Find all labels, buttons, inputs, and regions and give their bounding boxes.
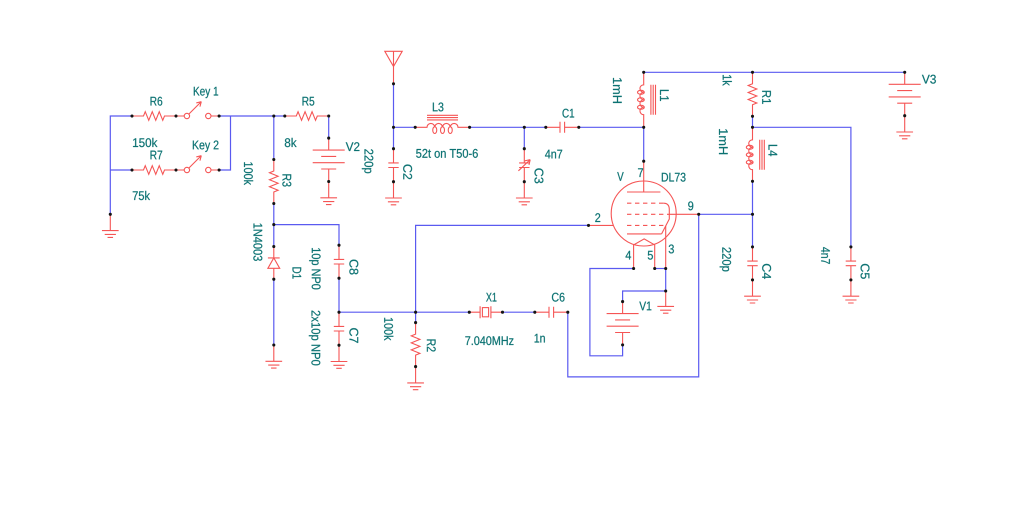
wire xyxy=(643,127,645,161)
junction xyxy=(697,213,700,216)
label V2 xyxy=(346,142,360,151)
junction xyxy=(272,278,275,281)
junction xyxy=(849,278,852,281)
junction xyxy=(664,267,667,270)
inductor L1 xyxy=(638,72,656,127)
capacitor C1 xyxy=(546,122,579,133)
junction xyxy=(337,311,340,314)
wire xyxy=(328,116,330,138)
junction xyxy=(642,160,645,163)
junction xyxy=(533,311,536,314)
junction xyxy=(468,126,471,129)
crystal X1 xyxy=(469,306,502,318)
label C8 xyxy=(349,260,358,275)
junction xyxy=(272,343,275,346)
value 1n xyxy=(535,334,545,343)
junction xyxy=(566,311,569,314)
capacitor C6 xyxy=(535,307,568,318)
junction xyxy=(414,321,417,324)
wire xyxy=(752,116,754,127)
value 8k xyxy=(285,138,297,147)
junction xyxy=(414,311,417,314)
wire xyxy=(523,127,525,148)
junction xyxy=(109,213,112,216)
junction xyxy=(283,114,286,117)
junction xyxy=(218,114,221,117)
junction xyxy=(327,180,330,183)
wire xyxy=(753,127,851,247)
junction xyxy=(751,126,754,129)
junction xyxy=(642,71,645,74)
wire xyxy=(644,71,905,73)
wire xyxy=(752,214,754,247)
value 4n7 xyxy=(821,247,830,264)
switch Key 2 xyxy=(176,156,219,173)
wire xyxy=(110,116,132,214)
wire xyxy=(273,279,275,345)
wire xyxy=(415,312,417,322)
junction xyxy=(337,344,340,347)
switch Key 1 xyxy=(176,102,219,119)
ground xyxy=(896,116,913,139)
junction xyxy=(544,126,547,129)
label R7 xyxy=(151,151,163,160)
junction xyxy=(337,277,340,280)
junction xyxy=(392,82,395,85)
label Key 2 xyxy=(193,141,219,152)
junction xyxy=(130,114,133,117)
junction xyxy=(587,224,590,227)
junction xyxy=(392,147,395,150)
junction xyxy=(642,126,645,129)
wire xyxy=(752,181,754,214)
junction xyxy=(849,245,852,248)
value 1mH xyxy=(613,78,622,103)
label L4 xyxy=(769,145,778,156)
label C2 xyxy=(403,165,412,180)
ground xyxy=(331,345,348,368)
battery V1 xyxy=(607,302,639,345)
label R5 xyxy=(303,97,315,106)
junction xyxy=(523,180,526,183)
junction xyxy=(751,213,754,216)
junction xyxy=(621,300,624,303)
junction xyxy=(392,126,395,129)
label Key 1 xyxy=(194,87,218,98)
wire xyxy=(665,269,667,292)
label D1 xyxy=(293,267,302,278)
wire xyxy=(219,116,230,170)
capacitor C2 xyxy=(388,149,398,182)
resistor R5 xyxy=(285,112,329,121)
battery V2 xyxy=(313,138,345,181)
label C5 xyxy=(861,264,870,279)
junction xyxy=(174,114,177,117)
value 100k xyxy=(384,318,393,341)
value 2x10p NP0 xyxy=(309,311,320,366)
junction xyxy=(751,245,754,248)
wire xyxy=(590,269,634,356)
value 220p xyxy=(720,247,731,271)
wire xyxy=(416,225,589,312)
tube V DL73 xyxy=(589,161,699,268)
wire xyxy=(568,214,699,377)
wire xyxy=(655,268,666,270)
capacitor C8 xyxy=(334,245,344,278)
junction xyxy=(218,168,221,171)
wire xyxy=(273,204,275,225)
junction xyxy=(174,168,177,171)
wire xyxy=(338,278,340,312)
wire xyxy=(470,126,546,128)
wire xyxy=(394,126,416,128)
ground xyxy=(102,214,119,237)
junction xyxy=(468,311,471,314)
wire xyxy=(219,115,285,117)
label C3 xyxy=(534,168,543,183)
diode D1 xyxy=(268,247,280,280)
junction xyxy=(523,126,526,129)
ground xyxy=(407,367,424,390)
junction xyxy=(392,180,395,183)
resistor R3 xyxy=(270,160,279,204)
resistor R7 xyxy=(132,166,176,175)
label L1 xyxy=(660,90,669,101)
wire xyxy=(273,225,275,247)
value 4n7 xyxy=(545,150,562,159)
value 7.040MHz xyxy=(465,336,513,345)
junction xyxy=(632,267,635,270)
wire xyxy=(623,291,666,302)
junction xyxy=(751,278,754,281)
junction xyxy=(327,114,330,117)
pin 7 xyxy=(638,168,643,177)
value 75k xyxy=(133,191,150,200)
junction xyxy=(903,71,906,74)
ground xyxy=(657,291,674,313)
inductor L4 xyxy=(746,127,764,182)
value 1N4003 xyxy=(253,224,262,261)
pin 5 xyxy=(648,251,653,260)
junction xyxy=(414,365,417,368)
label C1 xyxy=(563,109,575,118)
value 1k xyxy=(723,75,732,86)
junction xyxy=(327,137,330,140)
value 100k xyxy=(244,162,253,185)
label R2 xyxy=(427,339,436,351)
label V1 xyxy=(639,302,651,311)
junction xyxy=(272,245,275,248)
junction xyxy=(272,223,275,226)
label R3 xyxy=(282,174,291,186)
label C4 xyxy=(762,264,771,279)
wire xyxy=(339,311,469,313)
inductor L3 xyxy=(415,115,469,133)
junction xyxy=(903,114,906,117)
junction xyxy=(272,114,275,117)
wire xyxy=(699,213,753,215)
label C6 xyxy=(552,293,565,302)
pin 9 xyxy=(688,201,693,210)
ground xyxy=(265,345,282,368)
wire xyxy=(393,84,395,149)
wire xyxy=(110,169,132,171)
value 10p NP0 xyxy=(309,248,320,289)
resistor R2 xyxy=(411,323,420,367)
junction xyxy=(501,311,504,314)
label V3 xyxy=(922,75,936,84)
junction xyxy=(751,71,754,74)
label X1 xyxy=(486,293,496,302)
value 1mH xyxy=(719,129,728,154)
pin 2 xyxy=(595,213,600,222)
junction xyxy=(664,289,667,292)
junction xyxy=(130,168,133,171)
pin 4 xyxy=(626,251,632,260)
capacitor C5 xyxy=(846,247,856,280)
antenna xyxy=(385,51,402,84)
label L3 xyxy=(433,103,444,112)
ground xyxy=(516,182,533,205)
wire xyxy=(503,311,535,313)
resistor R6 xyxy=(132,112,176,121)
capacitor C7 xyxy=(334,312,344,345)
ground xyxy=(385,182,402,205)
wire xyxy=(274,225,339,246)
junction xyxy=(337,244,340,247)
value 220p xyxy=(362,149,373,173)
trimmer capacitor C3 xyxy=(518,149,530,182)
junction xyxy=(751,115,754,118)
junction xyxy=(272,202,275,205)
label R6 xyxy=(151,97,163,106)
junction xyxy=(414,126,417,129)
ground xyxy=(843,280,860,303)
junction xyxy=(621,343,624,346)
capacitor C4 xyxy=(747,247,757,280)
resistor R1 xyxy=(748,72,757,116)
junction xyxy=(653,267,656,270)
junction xyxy=(577,126,580,129)
label V xyxy=(617,172,623,181)
junction xyxy=(272,158,275,161)
ground xyxy=(320,182,337,205)
value 52t on T50-6 xyxy=(416,149,478,158)
value 150k xyxy=(133,138,157,147)
junction xyxy=(751,180,754,183)
wire xyxy=(579,126,644,128)
battery V3 xyxy=(889,72,921,115)
label C7 xyxy=(349,328,358,343)
pin 3 xyxy=(669,245,674,254)
label R1 xyxy=(762,91,771,104)
ground xyxy=(744,280,761,303)
label DL73 xyxy=(662,173,686,182)
wire xyxy=(273,116,275,160)
junction xyxy=(523,147,526,150)
